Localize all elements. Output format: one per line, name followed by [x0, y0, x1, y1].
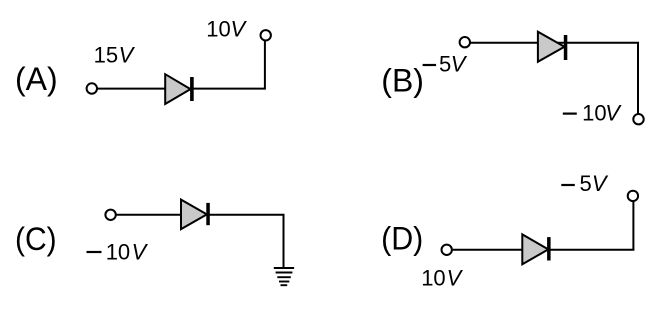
svg-text:(D): (D) — [381, 220, 423, 256]
svg-text:(B): (B) — [381, 63, 424, 99]
svg-text:15V: 15V — [94, 43, 136, 68]
svg-text:10V: 10V — [206, 17, 247, 42]
svg-text:(A): (A) — [15, 61, 58, 97]
svg-text:5V: 5V — [439, 51, 468, 76]
svg-text:10V: 10V — [421, 266, 463, 291]
svg-text:10V: 10V — [106, 240, 149, 265]
svg-text:5V: 5V — [580, 171, 609, 196]
svg-text:(C): (C) — [15, 221, 57, 257]
svg-text:10V: 10V — [582, 101, 622, 126]
